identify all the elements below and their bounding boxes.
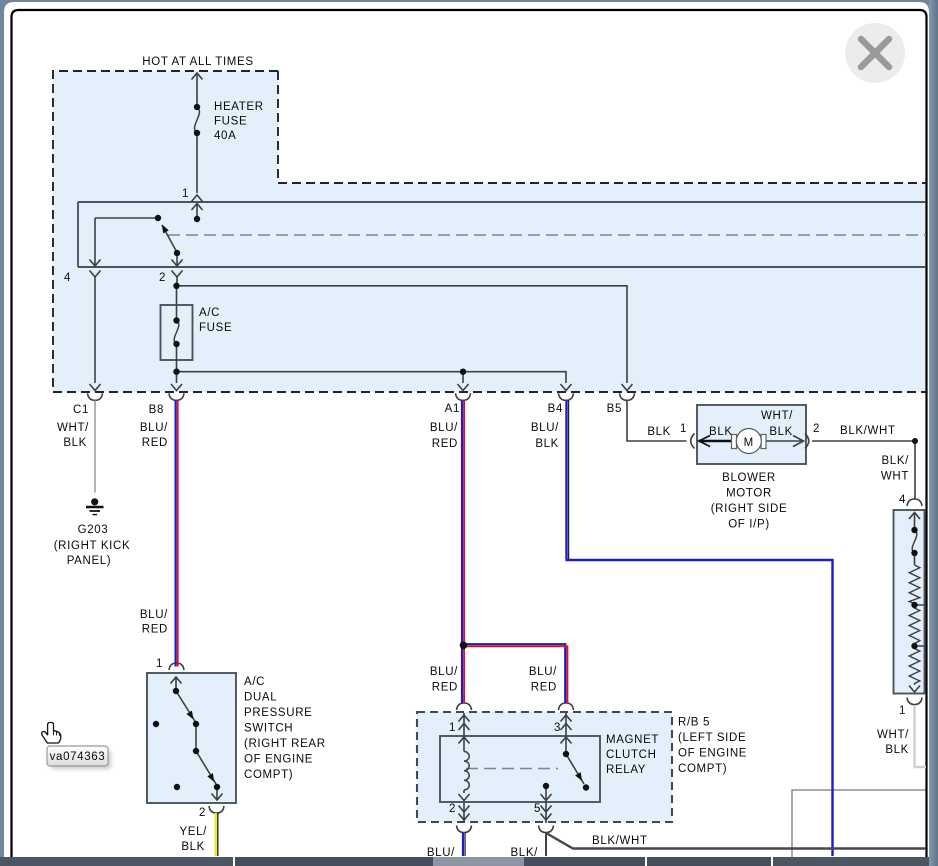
svg-text:RED: RED [142,624,168,636]
svg-text:1: 1 [449,722,456,734]
svg-text:(LEFT SIDE: (LEFT SIDE [678,732,746,744]
svg-text:HEATER: HEATER [214,101,264,113]
svg-text:SWITCH: SWITCH [244,723,293,735]
svg-text:A1: A1 [445,403,460,415]
svg-text:BLK: BLK [647,426,671,438]
svg-text:BLK: BLK [535,438,559,450]
svg-text:1: 1 [182,188,189,200]
svg-text:PRESSURE: PRESSURE [244,707,312,719]
svg-text:1: 1 [680,423,687,435]
svg-text:2: 2 [449,803,456,815]
svg-text:BLU/: BLU/ [140,609,168,621]
svg-text:3: 3 [554,722,561,734]
svg-text:B8: B8 [149,404,164,416]
svg-text:4: 4 [899,494,906,506]
svg-text:PANEL): PANEL) [67,555,112,567]
svg-text:(RIGHT KICK: (RIGHT KICK [54,540,131,552]
svg-text:COMPT): COMPT) [244,769,293,781]
svg-text:RELAY: RELAY [606,764,646,776]
svg-text:va074363: va074363 [50,751,106,763]
svg-text:OF I/P): OF I/P) [728,519,770,531]
svg-text:FUSE: FUSE [199,322,232,334]
svg-text:2: 2 [159,272,166,284]
svg-text:BLU/: BLU/ [529,666,557,678]
svg-text:YEL/: YEL/ [179,826,207,838]
svg-text:2: 2 [199,807,206,819]
svg-text:G203: G203 [78,524,109,536]
svg-text:RED: RED [142,437,168,449]
svg-text:RED: RED [432,438,458,450]
svg-text:BLK/WHT: BLK/WHT [592,835,648,847]
svg-text:40A: 40A [214,130,236,142]
svg-text:RED: RED [432,682,458,694]
svg-text:4: 4 [64,272,71,284]
svg-text:MAGNET: MAGNET [606,734,659,746]
svg-text:BLK: BLK [181,841,205,853]
svg-text:BLK/WHT: BLK/WHT [840,425,896,437]
svg-text:BLK: BLK [63,437,87,449]
svg-text:COMPT): COMPT) [678,763,727,775]
svg-text:R/B 5: R/B 5 [678,717,710,729]
svg-text:DUAL: DUAL [244,692,277,704]
svg-text:1: 1 [156,658,163,670]
svg-text:WHT: WHT [881,471,909,483]
svg-text:1: 1 [899,705,906,717]
svg-text:BLK: BLK [709,426,733,438]
svg-text:OF ENGINE: OF ENGINE [244,754,313,766]
svg-text:2: 2 [813,423,820,435]
svg-text:WHT/: WHT/ [761,410,793,422]
svg-text:5: 5 [534,803,541,815]
svg-text:MOTOR: MOTOR [726,488,772,500]
svg-text:A/C: A/C [199,307,220,319]
svg-text:C1: C1 [73,404,89,416]
svg-text:OF ENGINE: OF ENGINE [678,748,747,760]
svg-text:A/C: A/C [244,676,265,688]
svg-text:B5: B5 [607,403,622,415]
svg-text:BLU/: BLU/ [531,422,559,434]
svg-text:BLU/: BLU/ [430,422,458,434]
svg-text:BLK/: BLK/ [881,455,909,467]
svg-text:BLU/: BLU/ [140,422,168,434]
svg-text:BLK: BLK [769,426,793,438]
svg-text:B4: B4 [548,403,563,415]
svg-text:WHT/: WHT/ [57,422,89,434]
svg-text:M: M [744,437,754,449]
svg-text:BLK: BLK [885,744,909,756]
svg-text:HOT AT ALL TIMES: HOT AT ALL TIMES [142,56,253,68]
svg-text:CLUTCH: CLUTCH [606,749,657,761]
svg-text:(RIGHT REAR: (RIGHT REAR [244,738,326,750]
svg-text:FUSE: FUSE [214,116,247,128]
svg-text:BLOWER: BLOWER [722,472,776,484]
svg-text:WHT/: WHT/ [877,729,909,741]
svg-text:BLU/: BLU/ [430,666,458,678]
svg-text:(RIGHT SIDE: (RIGHT SIDE [711,503,788,515]
svg-text:RED: RED [531,682,557,694]
